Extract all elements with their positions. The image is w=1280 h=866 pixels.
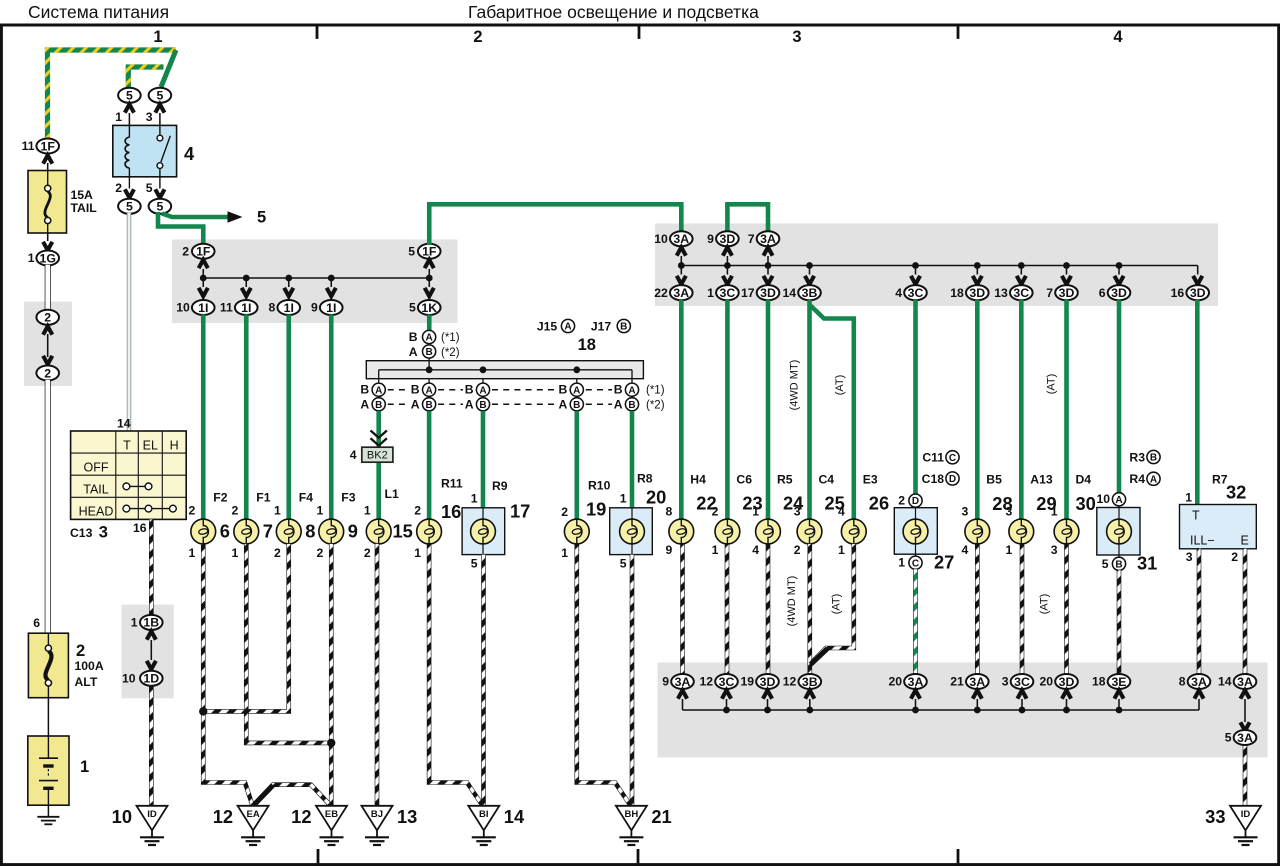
- svg-text:A: A: [360, 397, 369, 411]
- svg-text:7: 7: [748, 232, 755, 246]
- svg-text:A: A: [1150, 474, 1157, 485]
- svg-text:8: 8: [666, 505, 673, 519]
- svg-text:TAIL: TAIL: [83, 483, 109, 497]
- svg-text:T: T: [1192, 509, 1200, 523]
- svg-text:1: 1: [712, 543, 719, 557]
- svg-text:2: 2: [898, 494, 905, 508]
- svg-text:A: A: [1115, 495, 1122, 506]
- svg-text:1: 1: [188, 546, 195, 560]
- svg-text:8: 8: [305, 521, 315, 542]
- svg-text:17: 17: [741, 286, 755, 300]
- svg-text:B: B: [409, 330, 418, 344]
- svg-text:4: 4: [1113, 28, 1123, 46]
- svg-text:A: A: [573, 385, 580, 396]
- svg-text:TAIL: TAIL: [71, 201, 98, 215]
- svg-text:5: 5: [257, 209, 266, 227]
- svg-text:18: 18: [950, 286, 964, 300]
- svg-text:5: 5: [1225, 731, 1232, 745]
- svg-text:(*1): (*1): [441, 332, 460, 344]
- svg-text:1: 1: [561, 546, 568, 560]
- svg-text:10: 10: [122, 672, 136, 686]
- svg-text:A: A: [564, 322, 571, 333]
- svg-text:R5: R5: [777, 473, 793, 487]
- svg-text:12: 12: [783, 675, 797, 689]
- svg-text:13: 13: [397, 806, 417, 827]
- svg-text:2: 2: [414, 504, 421, 518]
- svg-text:4: 4: [838, 505, 845, 519]
- svg-text:Габаритное освещение и подсвет: Габаритное освещение и подсветка: [468, 2, 759, 22]
- svg-text:6: 6: [1099, 286, 1106, 300]
- svg-text:3: 3: [1186, 550, 1193, 564]
- svg-text:A: A: [558, 397, 567, 411]
- svg-text:(4WD MT): (4WD MT): [789, 360, 801, 411]
- svg-text:1: 1: [153, 28, 162, 46]
- svg-text:13: 13: [994, 286, 1008, 300]
- svg-text:EL: EL: [143, 439, 158, 453]
- svg-text:J17: J17: [591, 320, 612, 334]
- svg-text:14: 14: [117, 417, 131, 431]
- svg-text:5: 5: [1102, 557, 1109, 571]
- svg-text:BK2: BK2: [367, 450, 388, 462]
- svg-text:8: 8: [268, 301, 275, 315]
- svg-text:(*2): (*2): [441, 347, 460, 359]
- svg-text:B: B: [1115, 559, 1122, 570]
- svg-text:2: 2: [115, 181, 122, 195]
- svg-text:3: 3: [146, 110, 153, 124]
- svg-text:R10: R10: [588, 479, 611, 493]
- svg-text:1: 1: [620, 492, 627, 506]
- svg-text:R7: R7: [1212, 473, 1228, 487]
- svg-text:26: 26: [869, 493, 889, 514]
- svg-text:EB: EB: [325, 809, 338, 820]
- svg-text:2: 2: [712, 505, 719, 519]
- svg-text:9: 9: [666, 543, 673, 557]
- svg-text:4: 4: [184, 143, 195, 164]
- svg-text:3A: 3A: [673, 286, 689, 300]
- svg-text:100A: 100A: [75, 659, 104, 673]
- svg-text:A: A: [409, 345, 418, 359]
- svg-text:1: 1: [898, 556, 905, 570]
- svg-text:27: 27: [934, 552, 954, 573]
- svg-text:ALT: ALT: [75, 675, 98, 689]
- svg-text:D4: D4: [1076, 473, 1092, 487]
- svg-text:F2: F2: [213, 491, 227, 505]
- svg-text:1D: 1D: [143, 672, 159, 686]
- svg-text:16: 16: [441, 501, 461, 522]
- svg-text:B: B: [573, 400, 580, 411]
- svg-text:A: A: [425, 333, 432, 344]
- svg-text:1: 1: [1051, 505, 1058, 519]
- svg-text:ID: ID: [147, 809, 157, 820]
- svg-text:18: 18: [1092, 675, 1106, 689]
- svg-text:11: 11: [22, 139, 35, 153]
- svg-text:E3: E3: [863, 473, 878, 487]
- svg-text:C4: C4: [819, 473, 835, 487]
- svg-text:5: 5: [409, 301, 416, 315]
- svg-text:ILL−: ILL−: [1190, 534, 1215, 548]
- svg-text:2: 2: [561, 505, 568, 519]
- svg-text:30: 30: [1076, 493, 1096, 514]
- svg-text:1: 1: [414, 546, 421, 560]
- svg-text:8: 8: [1179, 675, 1186, 689]
- svg-text:BH: BH: [625, 809, 639, 820]
- svg-text:B: B: [620, 322, 627, 333]
- svg-text:9: 9: [311, 301, 318, 315]
- svg-text:3C: 3C: [720, 286, 736, 300]
- svg-text:H: H: [170, 439, 179, 453]
- svg-text:5: 5: [620, 557, 627, 571]
- svg-text:B: B: [1150, 453, 1157, 464]
- svg-text:1: 1: [274, 504, 281, 518]
- svg-text:3: 3: [794, 505, 801, 519]
- svg-text:4: 4: [962, 543, 969, 557]
- svg-text:J15: J15: [537, 320, 558, 334]
- svg-text:15: 15: [393, 521, 413, 542]
- svg-text:5: 5: [126, 200, 133, 214]
- svg-text:3B: 3B: [802, 286, 818, 300]
- svg-text:7: 7: [1046, 286, 1053, 300]
- svg-text:5: 5: [408, 245, 415, 259]
- svg-text:3: 3: [792, 28, 801, 46]
- svg-text:L1: L1: [385, 487, 399, 501]
- svg-text:17: 17: [510, 501, 530, 522]
- svg-text:1I: 1I: [284, 301, 294, 315]
- svg-text:20: 20: [1039, 675, 1053, 689]
- svg-text:R8: R8: [637, 472, 653, 486]
- svg-text:12: 12: [699, 675, 713, 689]
- svg-text:1: 1: [28, 251, 35, 265]
- svg-text:1K: 1K: [421, 301, 437, 315]
- svg-text:10: 10: [1096, 492, 1110, 506]
- svg-text:C: C: [949, 453, 956, 464]
- svg-text:2: 2: [231, 504, 238, 518]
- svg-text:B: B: [628, 400, 635, 411]
- svg-text:B: B: [614, 383, 623, 397]
- svg-text:BJ: BJ: [371, 809, 383, 820]
- svg-text:31: 31: [1137, 553, 1157, 574]
- svg-text:D: D: [949, 474, 956, 485]
- svg-text:HEAD: HEAD: [79, 505, 114, 519]
- svg-text:(AT): (AT): [834, 375, 846, 396]
- svg-text:2: 2: [794, 543, 801, 557]
- svg-text:2: 2: [76, 642, 85, 660]
- svg-text:11: 11: [220, 301, 233, 315]
- svg-text:C18: C18: [922, 472, 945, 486]
- svg-text:10: 10: [654, 232, 668, 246]
- svg-text:2: 2: [188, 504, 195, 518]
- svg-text:F4: F4: [299, 491, 313, 505]
- svg-text:10: 10: [176, 301, 190, 315]
- svg-text:B: B: [411, 383, 420, 397]
- svg-text:1: 1: [316, 504, 323, 518]
- svg-text:F1: F1: [256, 491, 270, 505]
- svg-text:1: 1: [131, 616, 138, 630]
- svg-text:3: 3: [1006, 505, 1013, 519]
- svg-text:2: 2: [316, 546, 323, 560]
- svg-text:20: 20: [646, 487, 666, 508]
- svg-text:16: 16: [133, 521, 147, 535]
- svg-text:1: 1: [364, 504, 371, 518]
- svg-text:14: 14: [1218, 675, 1232, 689]
- svg-text:B: B: [465, 383, 474, 397]
- svg-text:21: 21: [651, 806, 671, 827]
- svg-text:3D: 3D: [969, 286, 985, 300]
- svg-text:B: B: [425, 400, 432, 411]
- svg-text:1: 1: [471, 492, 478, 506]
- svg-text:C6: C6: [736, 473, 752, 487]
- svg-text:(*2): (*2): [646, 399, 665, 411]
- svg-text:16: 16: [1171, 286, 1185, 300]
- svg-text:1: 1: [838, 543, 845, 557]
- svg-text:9: 9: [707, 232, 714, 246]
- svg-text:2: 2: [364, 546, 371, 560]
- svg-text:10: 10: [112, 806, 132, 827]
- svg-text:3C: 3C: [908, 286, 924, 300]
- svg-text:3D: 3D: [1190, 286, 1206, 300]
- svg-text:4: 4: [752, 543, 759, 557]
- svg-text:3: 3: [962, 505, 969, 519]
- svg-text:1I: 1I: [326, 301, 336, 315]
- svg-text:3D: 3D: [1059, 286, 1075, 300]
- svg-text:T: T: [123, 439, 131, 453]
- svg-text:3C: 3C: [1013, 286, 1029, 300]
- svg-text:2: 2: [1231, 550, 1238, 564]
- svg-text:21: 21: [950, 675, 964, 689]
- svg-text:B: B: [479, 400, 486, 411]
- svg-text:1: 1: [115, 110, 122, 124]
- svg-text:C11: C11: [922, 451, 944, 465]
- svg-text:9: 9: [662, 675, 669, 689]
- svg-text:12: 12: [291, 806, 311, 827]
- svg-text:A: A: [375, 385, 382, 396]
- svg-text:6: 6: [33, 616, 40, 630]
- svg-text:20: 20: [888, 675, 902, 689]
- svg-text:33: 33: [1205, 806, 1225, 827]
- svg-text:4: 4: [350, 448, 357, 462]
- svg-text:(4WD MT): (4WD MT): [786, 576, 798, 627]
- svg-text:1: 1: [752, 505, 759, 519]
- svg-text:B5: B5: [986, 473, 1002, 487]
- svg-text:(AT): (AT): [831, 594, 843, 615]
- svg-text:1: 1: [1006, 543, 1013, 557]
- svg-text:3D: 3D: [1111, 286, 1127, 300]
- svg-text:E: E: [1241, 534, 1249, 548]
- svg-text:4: 4: [895, 286, 902, 300]
- svg-text:19: 19: [740, 675, 754, 689]
- svg-text:1: 1: [707, 286, 714, 300]
- svg-text:15A: 15A: [71, 188, 94, 202]
- svg-text:OFF: OFF: [84, 461, 109, 475]
- svg-text:(AT): (AT): [1039, 594, 1051, 615]
- svg-text:5: 5: [471, 557, 478, 571]
- svg-text:F3: F3: [341, 491, 355, 505]
- svg-text:32: 32: [1226, 482, 1246, 503]
- svg-text:14: 14: [782, 286, 796, 300]
- svg-text:22: 22: [654, 286, 668, 300]
- svg-text:EA: EA: [246, 809, 259, 820]
- svg-text:7: 7: [263, 521, 273, 542]
- svg-text:1: 1: [80, 758, 89, 776]
- svg-text:19: 19: [586, 499, 606, 520]
- svg-text:C: C: [912, 558, 919, 569]
- svg-text:3D: 3D: [760, 286, 776, 300]
- svg-text:B: B: [425, 347, 432, 358]
- svg-text:9: 9: [348, 521, 358, 542]
- svg-text:(*1): (*1): [646, 385, 665, 397]
- svg-text:6: 6: [220, 521, 230, 542]
- svg-text:14: 14: [504, 806, 525, 827]
- svg-text:R11: R11: [441, 477, 463, 491]
- svg-text:R3: R3: [1129, 451, 1145, 465]
- svg-text:A: A: [628, 385, 635, 396]
- svg-text:H4: H4: [690, 473, 706, 487]
- svg-text:2: 2: [274, 546, 281, 560]
- svg-text:5: 5: [156, 200, 163, 214]
- svg-text:3: 3: [1002, 675, 1009, 689]
- svg-text:C13: C13: [70, 526, 93, 540]
- svg-text:1I: 1I: [241, 301, 251, 315]
- svg-text:A: A: [479, 385, 486, 396]
- svg-text:2: 2: [473, 28, 482, 46]
- svg-text:2: 2: [44, 366, 51, 380]
- svg-text:1I: 1I: [198, 301, 208, 315]
- svg-text:A: A: [614, 397, 623, 411]
- svg-text:B: B: [558, 383, 567, 397]
- svg-text:5: 5: [146, 181, 153, 195]
- svg-text:1G: 1G: [39, 251, 55, 265]
- svg-text:1F: 1F: [41, 139, 56, 153]
- svg-text:ID: ID: [1241, 809, 1251, 820]
- svg-text:A: A: [425, 385, 432, 396]
- svg-text:2: 2: [182, 245, 189, 259]
- svg-text:A13: A13: [1030, 473, 1053, 487]
- svg-text:R9: R9: [492, 479, 508, 493]
- svg-text:18: 18: [578, 336, 596, 354]
- svg-text:3: 3: [1051, 543, 1058, 557]
- svg-text:12: 12: [213, 806, 233, 827]
- svg-text:Система питания: Система питания: [28, 2, 169, 22]
- svg-text:B: B: [375, 400, 382, 411]
- svg-text:R4: R4: [1129, 472, 1145, 486]
- svg-text:3A: 3A: [1237, 731, 1253, 745]
- svg-text:1: 1: [1185, 491, 1192, 505]
- svg-text:3: 3: [99, 524, 108, 542]
- svg-text:A: A: [465, 397, 474, 411]
- svg-text:(AT): (AT): [1046, 374, 1058, 395]
- svg-text:B: B: [360, 383, 369, 397]
- svg-text:D: D: [912, 496, 919, 507]
- svg-text:A: A: [411, 397, 420, 411]
- svg-text:BI: BI: [479, 809, 489, 820]
- svg-text:1: 1: [231, 546, 238, 560]
